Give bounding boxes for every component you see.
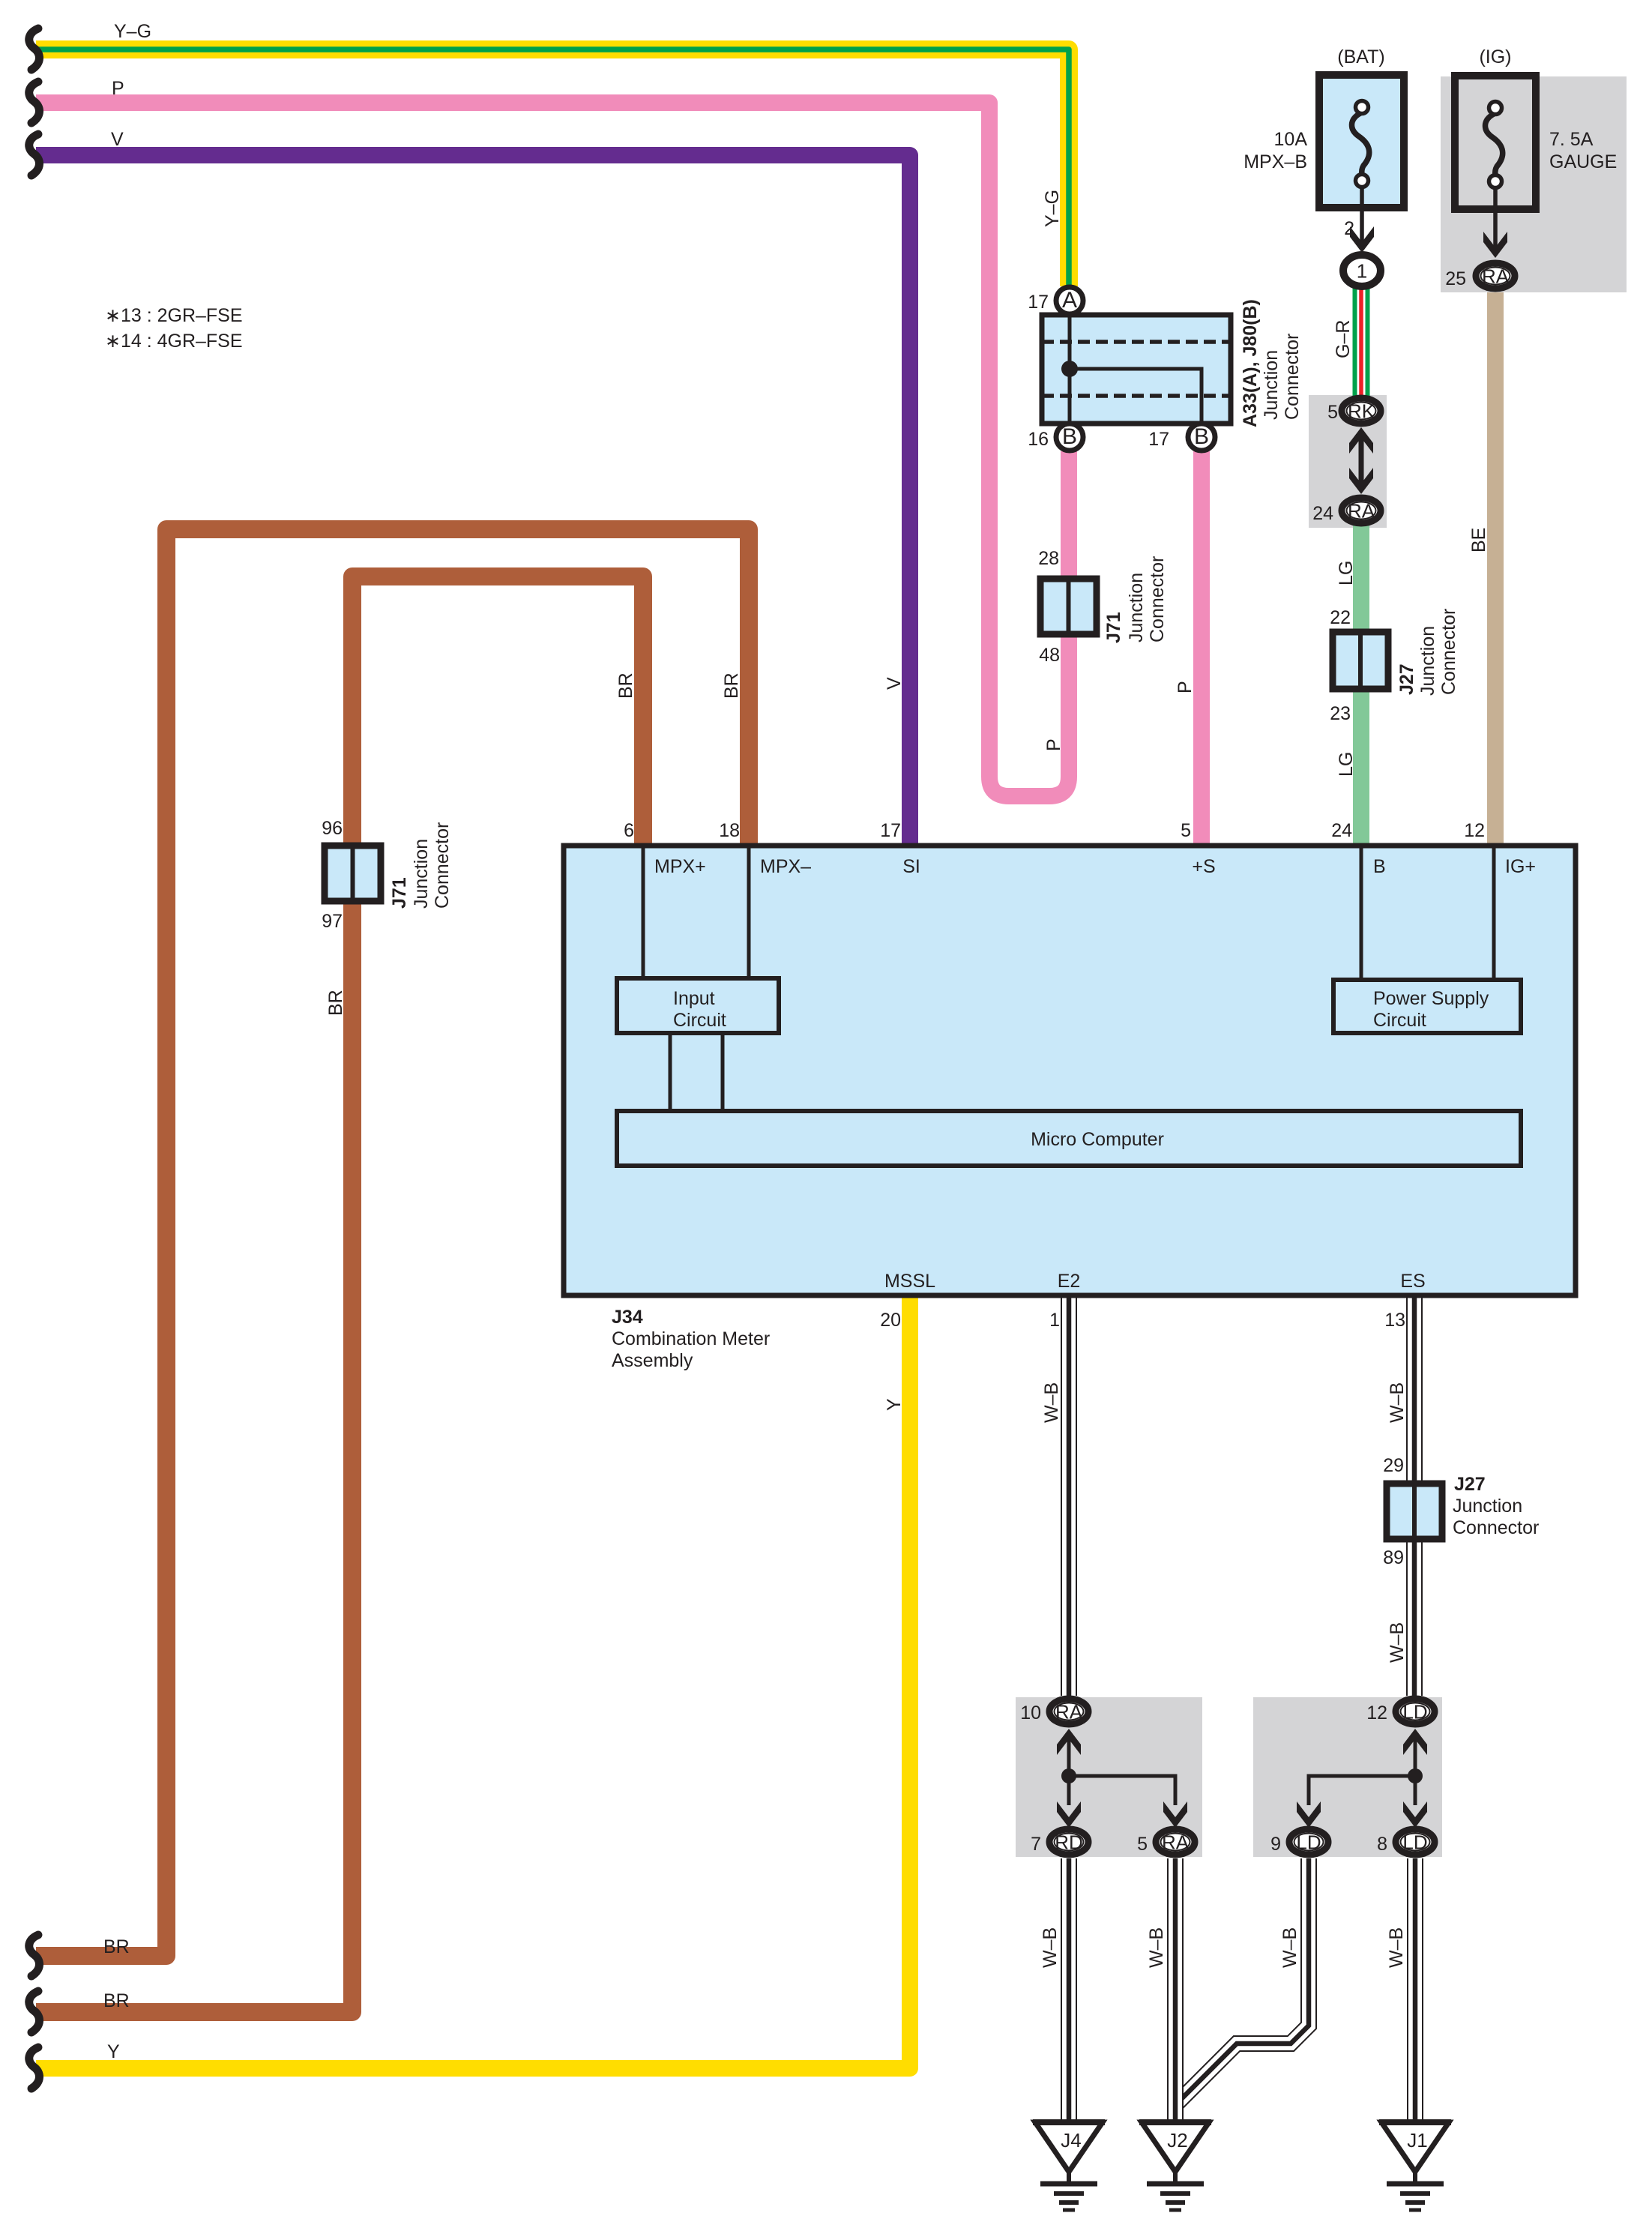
wire P pink stub (B17 down to +S pin) [1193,451,1210,844]
terminal oval RA 25 [1476,263,1515,289]
junction connector A33(A) J80(B) box [1042,315,1231,424]
J34 combination meter assembly box [564,846,1576,1295]
terminal oval RA 10 [1049,1699,1088,1724]
terminal oval LD 8 [1396,1829,1435,1855]
wire W-B (LD9 down joining J2 ground wire) [1175,1858,1309,2105]
wire input circuit to micro computer right [721,1033,725,1111]
svg-text:Circuit: Circuit [673,1010,726,1031]
svg-text:J4: J4 [1061,2129,1081,2152]
svg-text:E2: E2 [1058,1271,1081,1292]
svg-text:BR: BR [103,1990,130,2011]
arrowhead into terminal 1 [1350,226,1374,253]
terminal oval RA 24 [1342,498,1381,523]
svg-text:5: 5 [1327,402,1338,423]
svg-text:RK: RK [1348,400,1375,423]
terminal oval LD 12 [1396,1699,1435,1724]
frayed end BR inner [29,1991,40,2032]
wire Y yellow (MSSL pin 20 down and left to frayed end) [36,1297,910,2068]
ground J1 [1379,2122,1451,2210]
input circuit block [617,978,779,1033]
terminal B pin 17 [1188,424,1215,451]
svg-text:Y: Y [107,2041,120,2062]
svg-text:29: 29 [1383,1455,1404,1476]
svg-text:Assembly: Assembly [612,1350,693,1371]
frayed end P [29,82,40,123]
wire MPX+ pin 6 to input circuit [642,846,645,978]
power supply circuit block [1333,980,1521,1033]
svg-text:V: V [111,129,124,150]
wire BR brown inner loop (left frayed end up over to MPX+ pin 6, through J71) [36,576,643,2012]
svg-text:J34: J34 [612,1307,643,1328]
stem to RD7 [1067,1776,1071,1805]
A33 internal junction dot [1061,361,1078,377]
terminal B pin 16 [1056,424,1083,451]
svg-text:6: 6 [624,820,634,841]
terminal A pin 17 [1056,287,1083,314]
svg-text:89: 89 [1383,1547,1404,1568]
svg-text:9: 9 [1270,1834,1281,1855]
svg-text:MPX+: MPX+ [654,856,706,877]
svg-text:28: 28 [1038,548,1059,569]
svg-text:∗14 : 4GR–FSE: ∗14 : 4GR–FSE [105,331,243,352]
svg-text:Junction: Junction [411,839,432,909]
arrowhead down into RA24 [1349,468,1373,494]
arrowhead down into LD9 [1297,1801,1321,1828]
svg-text:ES: ES [1400,1271,1425,1292]
wire W-B (RD7 down to ground J4) [1061,1858,1077,2122]
svg-text:SI: SI [902,856,920,877]
A33 internal wire from A down to B16 [1068,316,1072,421]
svg-text:Power Supply: Power Supply [1373,988,1489,1009]
svg-text:A: A [1062,288,1077,313]
stem RA10 to junction [1067,1739,1071,1776]
svg-text:G–R: G–R [1333,320,1354,358]
svg-text:Micro Computer: Micro Computer [1031,1129,1164,1150]
svg-text:BR: BR [325,990,346,1016]
frayed end BR outer [29,1935,40,1976]
svg-text:10: 10 [1020,1702,1041,1723]
terminal oval LD 9 [1289,1829,1328,1855]
svg-text:MSSL: MSSL [884,1271,935,1292]
wire W-B (ES pin 13 down through J27 to LD12) [1406,1297,1423,1696]
svg-text:RA: RA [1348,500,1375,523]
wire G-R white separators [1357,288,1366,397]
svg-text:V: V [884,677,905,690]
svg-text:+S: +S [1192,856,1215,877]
svg-text:22: 22 [1330,607,1351,628]
ground J2 [1139,2122,1211,2210]
svg-text:MPX–: MPX– [760,856,811,877]
terminal oval 1 [1343,255,1381,286]
svg-text:BE: BE [1468,528,1489,553]
svg-text:Connector: Connector [1438,609,1459,695]
svg-text:W–B: W–B [1040,1927,1061,1968]
gray patch behind RA10/RD7/RA5 connector group [1016,1697,1202,1857]
stem to LD8 [1414,1776,1417,1805]
svg-text:8: 8 [1377,1834,1387,1855]
arrowhead down into RD7 [1057,1801,1081,1828]
svg-text:5: 5 [1137,1834,1148,1855]
ground J4 [1033,2122,1105,2210]
svg-text:Circuit: Circuit [1373,1010,1426,1031]
junction connector J71 box (pink) [1040,579,1097,634]
svg-text:BR: BR [721,672,742,699]
svg-text:RA: RA [1482,265,1510,288]
svg-text:B: B [1062,424,1077,449]
svg-text:10A: 10A [1274,129,1308,150]
svg-text:16: 16 [1028,429,1049,450]
wire BE beige (RA25 down to IG+ pin) [1487,292,1504,844]
wire BAT fuse to terminal 1 [1360,187,1364,244]
svg-text:W–B: W–B [1386,1927,1407,1968]
branch wire to RA5 [1069,1776,1175,1805]
svg-text:Connector: Connector [1453,1517,1539,1538]
svg-text:P: P [112,78,124,99]
wire G-R green base (oval 1 down to RK5) [1353,288,1370,397]
branch wire to LD9 [1309,1776,1415,1805]
svg-text:IG+: IG+ [1505,856,1536,877]
wire V violet (left frayed end to SI pin) [36,155,910,844]
svg-text:A33(A), J80(B): A33(A), J80(B) [1240,299,1261,427]
svg-text:P: P [1043,738,1064,751]
svg-text:24: 24 [1331,820,1352,841]
svg-text:13: 13 [1384,1310,1405,1331]
svg-text:Y–G: Y–G [1042,190,1063,227]
svg-text:J1: J1 [1407,2129,1427,2152]
svg-text:RA: RA [1162,1831,1190,1854]
A33 dashed bus lower [1042,394,1231,398]
svg-text:7. 5A: 7. 5A [1549,129,1594,150]
gray patch behind LD12/LD9/LD8 connector group [1253,1697,1442,1857]
svg-text:48: 48 [1039,645,1060,666]
svg-text:17: 17 [1148,429,1169,450]
svg-text:J27: J27 [1454,1474,1486,1495]
svg-text:GAUGE: GAUGE [1549,151,1617,172]
svg-text:97: 97 [322,911,343,932]
frayed end Y-G [29,28,40,70]
wire P pink (left frayed end, down, U-turn, up through J71 to B16) [36,103,1069,796]
wire B pin 24 to power supply circuit [1360,846,1363,980]
A33 dashed bus upper [1042,340,1231,344]
frayed end V [29,134,40,175]
wire MPX- pin 18 to input circuit [747,846,751,978]
svg-text:1: 1 [1049,1310,1060,1331]
wire Y-G yellow base (left frayed end to junction connector A) [36,49,1069,286]
arrowhead up into RK [1349,427,1373,454]
wire BR brown outer loop (left frayed end up over to MPX- pin 18) [36,529,749,1956]
arrowhead up into RA10 [1057,1729,1081,1755]
svg-text:1: 1 [1357,260,1367,283]
svg-text:24: 24 [1312,503,1333,524]
svg-text:12: 12 [1366,1702,1387,1723]
svg-text:J71: J71 [389,877,410,909]
stem LD12 to junction [1414,1739,1417,1776]
svg-text:W–B: W–B [1387,1382,1408,1423]
svg-text:Connector: Connector [432,822,453,909]
wire W-B (RA5 down to ground J2) [1167,1858,1184,2122]
gray patch behind IG fuse and gauge label [1441,76,1627,292]
svg-text:25: 25 [1445,268,1466,289]
svg-text:BR: BR [615,672,636,699]
arrowhead down into RA5 [1163,1801,1187,1828]
svg-text:96: 96 [322,818,343,839]
svg-text:Combination Meter: Combination Meter [612,1328,770,1349]
wire LG light green (RA24 down through J27 to B pin) [1353,525,1369,844]
svg-text:Connector: Connector [1282,334,1303,420]
junction dot right group [1408,1768,1423,1783]
arrowhead into RA25 [1483,232,1507,258]
junction connector J71 box (brown) [325,846,381,901]
svg-text:W–B: W–B [1041,1382,1062,1423]
fuse 7.5A GAUGE (IG) [1455,76,1536,209]
svg-text:5: 5 [1181,820,1191,841]
wire G-R red stripe [1359,288,1363,397]
junction connector J27 box (ES) [1387,1484,1442,1539]
svg-text:Y–G: Y–G [114,21,151,42]
wire input circuit to micro computer left [669,1033,672,1111]
svg-text:LD: LD [1402,1831,1427,1854]
wire IG+ pin 12 to power supply circuit [1492,846,1496,980]
svg-text:18: 18 [719,820,740,841]
svg-text:J27: J27 [1396,663,1417,695]
wire W-B (LD8 down to ground J1) [1407,1858,1423,2122]
wire W-B (E2 pin 1 down to RA10) [1061,1297,1077,1696]
svg-text:W–B: W–B [1279,1927,1300,1968]
svg-text:W–B: W–B [1146,1927,1167,1968]
terminal oval RD 7 [1049,1829,1088,1855]
svg-text:Connector: Connector [1147,556,1168,642]
wire IG fuse to RA25 [1493,187,1498,250]
arrowhead up into LD12 [1403,1729,1427,1755]
svg-text:B: B [1194,424,1209,449]
svg-text:MPX–B: MPX–B [1243,151,1307,172]
svg-text:20: 20 [880,1310,901,1331]
svg-text:J71: J71 [1103,612,1124,643]
gray patch behind RK/RA connector pair [1309,395,1387,528]
svg-text:2: 2 [1344,218,1354,239]
junction connector J27 box (LG) [1333,632,1388,689]
svg-text:P: P [1175,681,1196,693]
svg-text:Junction: Junction [1453,1496,1522,1517]
svg-text:LD: LD [1296,1831,1321,1854]
wire Y-G green stripe [36,49,1069,286]
terminal oval RA 5 [1156,1829,1195,1855]
svg-text:17: 17 [880,820,901,841]
svg-text:Input: Input [673,988,715,1009]
svg-text:W–B: W–B [1387,1622,1408,1663]
micro computer block [617,1111,1521,1166]
svg-text:Junction: Junction [1126,573,1147,642]
svg-text:LG: LG [1336,752,1357,777]
svg-text:(IG): (IG) [1479,46,1511,67]
arrowhead down into LD8 [1403,1801,1427,1828]
terminal oval RK [1342,398,1381,424]
svg-text:Y: Y [884,1398,905,1411]
svg-text:RD: RD [1055,1831,1083,1854]
svg-text:12: 12 [1464,820,1485,841]
svg-text:Junction: Junction [1261,350,1282,420]
junction dot left group [1061,1768,1076,1783]
svg-text:RA: RA [1055,1701,1083,1723]
svg-text:LG: LG [1336,561,1357,585]
svg-text:BR: BR [103,1936,130,1957]
frayed end Y [29,2047,40,2089]
svg-text:17: 17 [1028,292,1049,313]
svg-text:23: 23 [1330,703,1351,724]
svg-text:∗13 : 2GR–FSE: ∗13 : 2GR–FSE [105,305,243,326]
fuse 10A MPX-B (BAT) [1319,75,1404,208]
svg-text:LD: LD [1402,1701,1427,1723]
svg-text:B: B [1373,856,1386,877]
svg-text:7: 7 [1031,1834,1041,1855]
connector pair stem [1359,438,1364,486]
A33 internal wire to B17 [1070,369,1202,421]
svg-text:Junction: Junction [1417,626,1438,696]
svg-text:J2: J2 [1167,2129,1187,2152]
svg-text:(BAT): (BAT) [1337,46,1384,67]
